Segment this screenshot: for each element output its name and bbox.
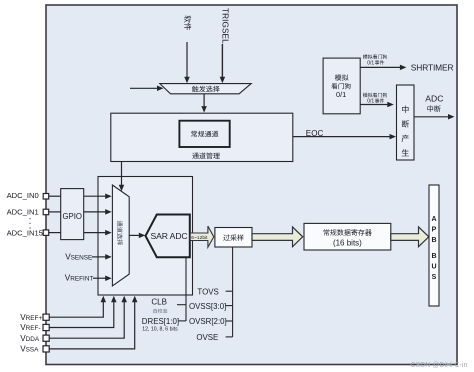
svg-text:A: A — [431, 216, 436, 223]
svg-text:GPIO: GPIO — [62, 212, 82, 221]
DRES tick — [179, 320, 187, 322]
OVSE tick — [226, 336, 233, 338]
SAR config wire — [185, 257, 187, 321]
pad ADC_IN0 — [43, 194, 49, 200]
svg-text:OVSE: OVSE — [196, 333, 218, 342]
EOC wire — [293, 136, 390, 138]
label 软件 (software), rotated — [184, 15, 191, 30]
TOVS tick — [226, 290, 233, 292]
analog watchdog box 模拟看门狗0/1 — [323, 58, 360, 114]
svg-text:EOC: EOC — [306, 129, 324, 138]
wire GPIO out 15 — [84, 232, 106, 234]
svg-text:ADC_IN1: ADC_IN1 — [7, 208, 39, 217]
OVSS tick — [226, 305, 233, 307]
wire GPIO out 0 — [84, 195, 106, 197]
svg-text:12, 10, 8, 6 bits: 12, 10, 8, 6 bits — [142, 327, 178, 333]
svg-text:VSENSE: VSENSE — [65, 252, 92, 261]
watchdog event wire to interrupt gen — [360, 104, 388, 106]
ADC interrupt wire — [414, 116, 448, 118]
svg-text:ADC_IN15: ADC_IN15 — [7, 228, 43, 237]
svg-text:(16 bits): (16 bits) — [333, 238, 362, 247]
trigger selection trapezoid 触发选择 — [160, 84, 251, 94]
svg-text:TOVS: TOVS — [197, 287, 218, 296]
pad ADC_IN15 — [43, 230, 49, 236]
wire GPIO out 1 — [84, 211, 106, 213]
svg-text:TRIGSEL: TRIGSEL — [220, 8, 229, 44]
svg-text:0/1: 0/1 — [367, 99, 374, 105]
wire software to trigger mux — [186, 42, 188, 79]
wire ADC_IN1 to GPIO — [49, 211, 61, 213]
label TRIGSEL, rotated — [220, 8, 229, 44]
oversampler box 过采样 — [215, 228, 252, 248]
CLB tick — [177, 304, 186, 306]
wire ADC_IN15 to GPIO — [49, 232, 61, 234]
SAR ADC pentagon — [146, 215, 190, 258]
svg-text:OVSR[2:0]: OVSR[2:0] — [189, 317, 227, 326]
svg-text:VREF-: VREF- — [20, 323, 40, 332]
svg-text:U: U — [431, 264, 436, 271]
svg-text:S: S — [432, 274, 437, 281]
svg-text:0/1: 0/1 — [336, 90, 346, 99]
wire TRIGSEL to trigger mux — [221, 44, 223, 79]
regular channel box 常规通道 — [179, 121, 229, 147]
channel management box 通道管理 — [111, 113, 293, 161]
oversampler config wire — [232, 247, 234, 337]
wire mux to SAR ADC — [129, 234, 139, 236]
GPIO box — [61, 189, 84, 240]
wire ADC_IN0 to GPIO — [49, 195, 61, 197]
regular data register box 常规数据寄存器 — [304, 223, 391, 250]
svg-text:SHRTIMER: SHRTIMER — [411, 62, 454, 72]
block arrow oversampler to data register — [252, 227, 303, 247]
svg-text:VSSA: VSSA — [20, 345, 39, 354]
svg-text:VREF+: VREF+ — [20, 313, 42, 322]
svg-text:P: P — [432, 227, 437, 234]
svg-text:ADC: ADC — [425, 94, 443, 104]
block arrow data register to APB — [391, 227, 429, 247]
svg-text:0/1: 0/1 — [367, 60, 374, 66]
OVSR tick — [226, 320, 233, 322]
wire trigger mux to channel mgmt — [203, 94, 205, 107]
svg-text:OVSS[3:0]: OVSS[3:0] — [189, 302, 226, 311]
wire VSENSE to mux — [92, 256, 106, 258]
pad ADC_IN1 — [43, 209, 49, 215]
label 自校准 — [153, 309, 167, 314]
ellipsis dots — [29, 218, 31, 230]
svg-text:VDDA: VDDA — [20, 334, 40, 343]
wire VREFINT to mux — [93, 277, 106, 279]
label 通道管理 — [192, 152, 219, 158]
svg-text:CLB: CLB — [151, 298, 167, 307]
svg-text:VREFINT: VREFINT — [65, 274, 94, 283]
APB BUS box — [429, 185, 439, 306]
svg-text:SAR ADC: SAR ADC — [151, 231, 188, 241]
svg-text:CSDN @DiHi C-in: CSDN @DiHi C-in — [411, 362, 468, 369]
svg-text:DRES[1:0]: DRES[1:0] — [142, 317, 179, 326]
label 模拟看门狗 0/1事件 (top) — [363, 54, 387, 59]
svg-text:6~12bit: 6~12bit — [191, 235, 208, 241]
arrowhead into trigger mux (TRIGSEL) — [220, 77, 226, 84]
svg-text:B: B — [431, 253, 436, 260]
svg-text:B: B — [431, 237, 436, 244]
6~12bit block arrow — [190, 226, 214, 247]
channel select mux 通道选择 — [112, 185, 129, 286]
watchdog event wire to SHRTIMER — [360, 66, 400, 68]
label 模拟看门狗 0/1事件 (bottom) — [363, 93, 387, 98]
stub arrow into trigger mux from left — [130, 87, 158, 89]
ADC core box — [98, 177, 193, 296]
interrupt generation box 中断产生 — [397, 85, 415, 160]
wire channel mgmt down to channel mux — [121, 162, 123, 186]
arrowhead into trigger mux (software) — [184, 77, 190, 84]
svg-text:ADC_IN0: ADC_IN0 — [7, 191, 39, 200]
